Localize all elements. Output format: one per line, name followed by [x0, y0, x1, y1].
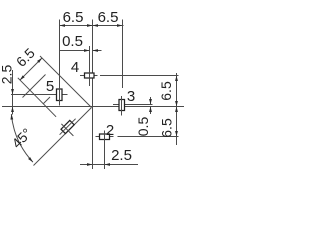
body outline rotated: upper-left edge — [23, 75, 46, 98]
wire pad4 row line — [80, 75, 179, 77]
pad 4 — [85, 70, 95, 86]
svg-text:4: 4 — [71, 59, 79, 76]
pad 1 rotated rectangle — [60, 119, 76, 136]
svg-text:6.5: 6.5 — [158, 81, 174, 101]
pad 2 — [100, 131, 110, 170]
svg-text:5: 5 — [46, 78, 54, 95]
dimension top 6.5+6.5 line — [60, 24, 124, 27]
svg-text:0.5: 0.5 — [135, 117, 151, 137]
wire pad3 row line — [113, 104, 153, 106]
dimension diagonal 6.5 line — [20, 58, 42, 80]
body outline rotated: upper-right edge ray to center — [40, 56, 92, 108]
wire 45 degree ray from center — [34, 108, 92, 166]
svg-text:2.5: 2.5 — [0, 65, 15, 85]
body outline rotated: lower-left edge extended — [18, 78, 56, 117]
dimension 2.5 bottom — [80, 163, 138, 166]
wire horizontal centerline — [2, 106, 184, 108]
wire vertical centerline — [92, 20, 94, 170]
dimension right 6.5+6.5 line — [175, 73, 178, 145]
dimension 45 degree arc — [10, 114, 32, 162]
svg-text:3: 3 — [127, 88, 135, 105]
svg-text:2: 2 — [106, 122, 114, 139]
body outline rotated: lower-right edge stub — [44, 97, 51, 104]
svg-text:6.5: 6.5 — [63, 9, 84, 26]
pad 5 — [57, 84, 63, 106]
wire pad5 row line — [11, 94, 68, 96]
wire pad2 row line — [96, 136, 179, 138]
dimension 0.5 right — [149, 97, 152, 114]
wire extension line pad5 column — [59, 20, 61, 86]
dimension 0.5 top — [60, 46, 102, 70]
svg-text:0.5: 0.5 — [62, 33, 83, 50]
svg-text:6.5: 6.5 — [98, 9, 119, 26]
wire extension line pad3 column — [122, 20, 124, 89]
pad 3 — [119, 96, 125, 116]
dimension 2.5 left — [11, 70, 14, 115]
svg-text:6.5: 6.5 — [159, 118, 175, 138]
svg-text:2.5: 2.5 — [111, 147, 132, 164]
